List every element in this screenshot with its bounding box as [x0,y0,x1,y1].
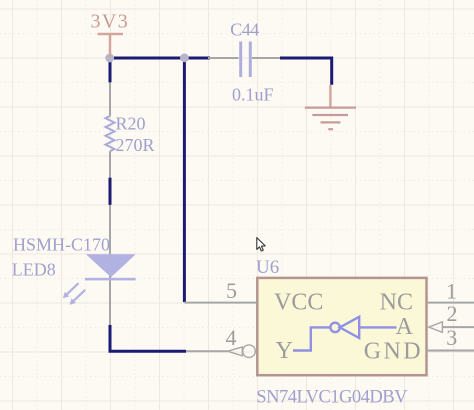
svg-text:A: A [396,314,414,340]
svg-text:1: 1 [446,278,457,303]
svg-text:3V3: 3V3 [91,11,130,33]
svg-text:HSMH-C170: HSMH-C170 [13,235,110,255]
svg-text:3: 3 [446,325,457,350]
svg-text:C44: C44 [230,20,259,40]
svg-text:U6: U6 [256,257,279,278]
svg-text:2: 2 [447,301,458,326]
svg-text:270R: 270R [116,135,155,155]
svg-text:4: 4 [226,325,237,350]
svg-text:SN74LVC1G04DBV: SN74LVC1G04DBV [256,387,408,408]
svg-text:LED8: LED8 [12,260,56,280]
svg-text:NC: NC [380,290,413,316]
svg-text:R20: R20 [116,114,146,134]
svg-text:Y: Y [276,338,293,364]
svg-text:GND: GND [364,339,423,365]
svg-text:VCC: VCC [274,290,323,316]
svg-text:0.1uF: 0.1uF [232,85,274,105]
svg-text:5: 5 [226,278,237,303]
